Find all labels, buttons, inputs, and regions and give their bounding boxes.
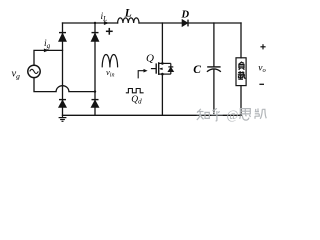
wire top rail left (bridge top to inductor) [63, 22, 118, 24]
wire load top [240, 23, 242, 58]
svg-text:iL: iL [101, 12, 108, 23]
transistor Q MOSFET with body diode [151, 62, 171, 75]
svg-text:vin: vin [106, 67, 114, 79]
svg-text:@: @ [227, 107, 239, 122]
load glyph fu (负) [239, 62, 245, 70]
svg-text:D: D [181, 9, 190, 20]
watermark text 凯 [255, 108, 266, 119]
wire load bottom [240, 86, 242, 116]
diode D1 bridge left top [59, 33, 66, 42]
gate drive square wave Qd [126, 89, 144, 93]
gate drive arrow [138, 69, 147, 79]
arrow ig on wire [44, 49, 49, 53]
junction dot MOSFET source node [161, 73, 164, 76]
diode D2 bridge right top [92, 33, 99, 42]
wire top rail right (inductor to load) [139, 22, 241, 24]
junction dot right leg mid [94, 90, 96, 92]
wire right bridge leg [94, 23, 96, 115]
vin rectified sine waveform [102, 54, 117, 67]
watermark zhihu logo text 知 [197, 109, 210, 120]
plus sign of vo [260, 44, 265, 49]
diode D3 bridge left bottom [59, 100, 66, 108]
wire MOSFET drain from top rail [161, 23, 163, 63]
wire source top to left leg mid node [34, 50, 63, 65]
plus sign of vin [106, 28, 113, 35]
wire source bottom with crossover hump to right leg [34, 78, 95, 92]
svg-text:C: C [193, 64, 201, 76]
capacitor C plates [207, 67, 221, 72]
diode D boost [182, 20, 188, 27]
watermark zhihu logo text 乎 [211, 108, 223, 121]
svg-text:ig: ig [44, 39, 51, 50]
arrow iL on top rail [104, 21, 109, 25]
load glyph zai (载) [238, 71, 245, 79]
junction dot MOSFET drain node [161, 62, 164, 65]
MOSFET channel arrow [159, 68, 162, 71]
AC source vg circle [28, 65, 40, 77]
svg-text:L: L [124, 8, 132, 20]
MOSFET body diode [168, 67, 173, 72]
svg-text:Q: Q [146, 53, 154, 65]
wire capacitor bottom [213, 70, 215, 116]
svg-text:vo: vo [258, 64, 266, 75]
inductor L [118, 18, 139, 23]
wire bottom rail [63, 114, 242, 116]
svg-text:Qd: Qd [131, 95, 142, 106]
ground [59, 115, 67, 121]
svg-text:vg: vg [12, 69, 21, 81]
diode D4 bridge right bottom [92, 100, 99, 108]
load box [236, 58, 246, 86]
wire capacitor top [213, 23, 215, 66]
wire left bridge leg [62, 23, 64, 115]
watermark text 思 [240, 109, 251, 121]
junction dot right leg top [94, 22, 96, 24]
wire MOSFET source to bottom rail [161, 74, 163, 115]
minus sign of vo [259, 83, 264, 85]
